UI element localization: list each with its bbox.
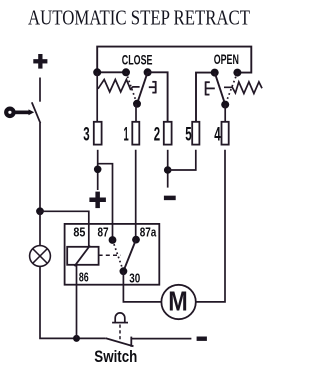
node A (T3 riser / top bus junction) <box>93 68 101 76</box>
svg-text:5: 5 <box>185 124 191 146</box>
wire terminal 1 down to relay pin 87a <box>135 150 137 240</box>
wire junction down to lamp <box>39 211 41 245</box>
svg-text:87: 87 <box>98 224 109 239</box>
key symbol <box>4 107 34 119</box>
resistor across CLOSE contacts <box>98 80 140 92</box>
CLOSE cam actuator symbol <box>149 81 156 93</box>
node: ignition feed junction <box>36 207 44 215</box>
svg-text:4: 4 <box>214 124 220 146</box>
OPEN dotted contact line F to G <box>225 73 237 105</box>
node D (CLOSE common) <box>133 100 141 108</box>
svg-text:30: 30 <box>129 271 140 286</box>
svg-text:M: M <box>168 286 188 317</box>
battery - terminal (bottom right) <box>197 337 207 341</box>
svg-text:2: 2 <box>154 124 160 146</box>
node: pin 86 junction on bottom rail <box>73 335 80 342</box>
ignition key switch arm <box>32 102 41 123</box>
wire terminal 2 down to - symbol <box>167 150 169 188</box>
wire terminal 4 down to motor right side <box>196 150 225 302</box>
svg-text:Switch: Switch <box>94 348 137 366</box>
terminal 1 <box>124 122 140 146</box>
dashed link coil to relay arm <box>99 254 121 256</box>
wire node A down to terminal 3 <box>96 72 98 122</box>
wire CLOSE common down to terminal 1 <box>135 104 137 122</box>
node C (CLOSE NC contact) <box>144 68 152 76</box>
resistor across OPEN contacts <box>224 82 262 94</box>
svg-text:OPEN: OPEN <box>214 52 239 67</box>
svg-text:86: 86 <box>79 270 89 285</box>
terminal 4 <box>214 122 229 146</box>
wire OPEN common down to terminal 4 <box>224 105 226 122</box>
node below terminal 3 <box>94 166 102 174</box>
svg-text:AUTOMATIC STEP RETRACT: AUTOMATIC STEP RETRACT <box>28 5 250 29</box>
node below terminal 2 <box>164 166 172 174</box>
terminal 2 <box>154 122 172 146</box>
wire OPEN left stub from T5 riser to node E <box>196 73 215 122</box>
wire junction to relay pin 85 (into coil top) <box>40 211 89 247</box>
motor <box>161 285 195 319</box>
momentary switch arm (bottom) <box>106 338 134 346</box>
node relay 87 <box>109 236 117 244</box>
wire terminal 3 down to + feed <box>97 150 99 190</box>
node F (OPEN dotted contact) <box>233 69 241 77</box>
battery + terminal (top left) <box>33 54 47 69</box>
CLOSE dotted contact line B to common D <box>126 72 137 104</box>
push button actuator above switch <box>112 313 128 323</box>
OPEN cam actuator symbol <box>206 81 215 95</box>
wire relay pin 86 down to bottom rail <box>76 265 78 339</box>
OPEN switch arm E to common G <box>215 73 226 105</box>
top bus wire (+feed to CLOSE and OPEN dotted contacts) <box>97 47 251 73</box>
terminal 5 <box>185 122 199 146</box>
svg-text:85: 85 <box>73 224 85 239</box>
relay arm 30 to 87a <box>123 240 136 272</box>
relay coil <box>67 246 98 267</box>
relay box <box>65 224 160 285</box>
dashed link push button to switch arm <box>119 325 121 342</box>
node relay 87a <box>132 236 140 244</box>
svg-text:3: 3 <box>83 124 89 146</box>
CLOSE switch arm D to C <box>137 72 148 104</box>
wire branch from T3 line to relay pin 87 <box>98 164 113 240</box>
wire node C to terminal 2 <box>148 72 168 122</box>
wire relay 30 down and right to motor <box>123 271 161 302</box>
+ supply symbol below terminal 3 <box>89 192 106 209</box>
svg-text:1: 1 <box>124 124 129 146</box>
node G (OPEN common) <box>221 101 229 109</box>
svg-text:87a: 87a <box>140 224 157 239</box>
wire ignition switch down to junction node <box>39 123 41 211</box>
switch right contact tick <box>130 337 132 347</box>
node relay 30 <box>120 267 128 275</box>
- ground symbol below terminal 2 <box>164 196 176 201</box>
CLOSE switch bus node A to node B <box>97 71 126 73</box>
wire from + down to ignition switch <box>39 78 41 102</box>
indicator lamp <box>30 246 51 267</box>
wire terminal 5 down and left to T2 node <box>168 150 196 170</box>
wire switch to battery - (bottom right) <box>131 338 191 340</box>
wire lamp down and right along bottom rail to switch <box>40 266 106 338</box>
terminal 3 <box>83 122 101 146</box>
relay dotted contact 87 to 30 <box>113 240 124 271</box>
svg-text:CLOSE: CLOSE <box>122 52 153 67</box>
node B (CLOSE dotted contact) <box>122 68 130 76</box>
node E (OPEN NC contact) <box>211 69 219 77</box>
